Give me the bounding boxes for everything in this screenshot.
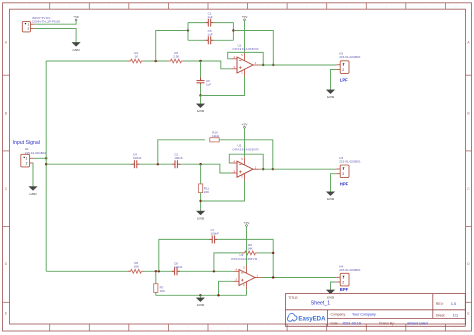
wire node B1 to C6 — [200, 61, 202, 80]
wire U2 pin2 to ground node — [201, 181, 245, 201]
wire +5V to U3 pin5 — [246, 227, 248, 266]
wire R11 to ground — [200, 193, 202, 211]
svg-text:ahmed saied: ahmed saied — [407, 321, 428, 325]
junction input rail / HPF branch — [45, 163, 47, 165]
svg-text:+5V: +5V — [241, 123, 248, 127]
ground stage2 — [196, 211, 204, 215]
svg-text:OPA336AIDBVR: OPA336AIDBVR — [231, 257, 258, 261]
capacitor C8 — [172, 267, 180, 275]
+5V power P1 — [75, 19, 77, 21]
wire C1 right — [214, 22, 234, 24]
wire R7 to ground rail — [155, 292, 157, 295]
svg-text:Company:: Company: — [331, 312, 347, 316]
wire H3 pin2 to GND — [331, 174, 337, 192]
svg-text:22K: 22K — [204, 190, 209, 194]
svg-text:2: 2 — [342, 280, 344, 284]
svg-text:215-91-02GB01: 215-91-02GB01 — [339, 268, 361, 272]
junction node B1 — [199, 60, 201, 62]
wire node B2 to R11 — [200, 164, 202, 184]
wire R2 to U1 pin3 — [184, 61, 232, 69]
svg-text:GND: GND — [197, 303, 205, 307]
svg-text:CONN-TH_2P-P5.08: CONN-TH_2P-P5.08 — [32, 19, 60, 23]
ground stage1 — [196, 104, 204, 108]
wire to ground stage3 — [199, 295, 201, 298]
svg-text:12kΩ: 12kΩ — [212, 134, 220, 138]
wire C2 to U2 pin3 — [180, 164, 231, 173]
wire U1 pin2 return — [201, 77, 245, 96]
wire +5V to U1 pin5 — [244, 21, 246, 53]
svg-text:Date:: Date: — [331, 321, 339, 325]
junction U1 output / loop — [262, 64, 264, 66]
junction R9 / C7 drop — [272, 252, 274, 254]
wire feedback right vertical — [232, 23, 234, 41]
wire stage3 ground rail — [156, 294, 247, 296]
junction input rail / H1 pin1 — [45, 157, 47, 159]
svg-text:1.0: 1.0 — [451, 301, 457, 306]
svg-text:GND: GND — [327, 295, 335, 299]
wire U1 pin4 feedback loop — [228, 52, 264, 65]
wire to C1 left — [188, 22, 205, 24]
wire rail to R1 — [46, 60, 130, 62]
svg-text:14K: 14K — [247, 246, 252, 250]
resistor R11 — [199, 184, 203, 193]
svg-text:1uF: 1uF — [207, 33, 212, 37]
wire C5 right — [214, 39, 234, 41]
wire R1 to R2 — [144, 60, 168, 62]
+5V power U1 — [244, 19, 246, 21]
junction node A3 tap — [158, 270, 160, 272]
junction U2 output / loop — [262, 168, 264, 170]
capacitor C2 — [172, 160, 180, 168]
wire P1 pin2 to GND — [34, 29, 76, 43]
junction feedback left — [187, 29, 189, 31]
wire node A3 to C7 — [159, 239, 209, 271]
+5V power U2 — [244, 126, 246, 128]
svg-text:2: 2 — [342, 172, 344, 176]
wire rail to R6 — [46, 270, 130, 272]
wire H1 pin1 to input rail — [33, 157, 46, 159]
junction U2 output / R10 — [272, 168, 274, 170]
junction ground rail / GND — [199, 294, 201, 296]
svg-text:1uF: 1uF — [207, 15, 212, 19]
svg-text:100nF: 100nF — [174, 265, 183, 269]
svg-text:+5V: +5V — [241, 15, 248, 19]
svg-text:TITLE:: TITLE: — [288, 296, 298, 300]
frame row ticks left — [3, 75, 10, 302]
junction R11 / U2 pin2 — [199, 200, 201, 202]
resistor R9 — [242, 251, 258, 255]
wire input rail vertical — [45, 61, 47, 271]
svg-text:GND: GND — [73, 48, 81, 52]
junction ground rail / pin3 — [217, 294, 219, 296]
op-amp U1 — [232, 53, 260, 77]
svg-text:+5V: +5V — [243, 221, 250, 225]
wire C8 to U3 pin4 — [180, 270, 234, 272]
svg-text:Input Signal: Input Signal — [13, 140, 40, 146]
svg-text:GND: GND — [327, 95, 335, 99]
op-amp U3 — [234, 266, 262, 290]
resistor R10 — [210, 138, 219, 142]
frame column ticks top — [50, 3, 446, 9]
svg-text:BPF: BPF — [340, 287, 349, 292]
wire P1 pin1 to +5V — [34, 21, 76, 24]
wire rail to C4 — [46, 163, 131, 165]
svg-text:OPA336AIDBVR: OPA336AIDBVR — [232, 47, 259, 51]
svg-text:GND: GND — [197, 216, 205, 220]
svg-text:1uF: 1uF — [206, 82, 211, 86]
svg-text:GND: GND — [327, 197, 335, 201]
svg-text:REV:: REV: — [436, 302, 444, 306]
capacitor C5 — [205, 36, 213, 44]
ground H2 — [326, 90, 334, 94]
wire U3 pin2 to ground rail — [246, 289, 248, 295]
+5V power U3 — [246, 225, 248, 227]
svg-text:215-91-02GB01: 215-91-02GB01 — [339, 55, 361, 59]
connector P1 CONN-TH_2P-P5.08 — [22, 22, 34, 32]
wire R9 to output drop — [258, 252, 273, 254]
wire to ground stage1 — [200, 96, 202, 104]
svg-text:100nF: 100nF — [174, 156, 183, 160]
wire C6 to gnd node — [200, 84, 202, 96]
frame column ticks bottom — [50, 324, 446, 331]
svg-text:OPA336AIDBVR: OPA336AIDBVR — [232, 147, 259, 151]
wire C7 to output — [218, 239, 274, 277]
svg-text:1K: 1K — [134, 55, 138, 59]
svg-text:Sheet_1: Sheet_1 — [311, 301, 330, 307]
wire R6 to C8 — [144, 270, 172, 272]
frame row ticks right — [466, 75, 472, 302]
wire +5V to U2 pin5 — [244, 128, 246, 157]
svg-text:+5V: +5V — [73, 15, 80, 19]
svg-text:215-91-02GB01: 215-91-02GB01 — [339, 159, 361, 163]
wire node A1 to feedback — [156, 31, 188, 62]
svg-text:2021-03-19: 2021-03-19 — [343, 321, 361, 325]
junction node A3 — [155, 270, 157, 272]
capacitor C6 — [197, 78, 205, 86]
svg-text:100nF: 100nF — [211, 232, 220, 236]
svg-text:2: 2 — [342, 68, 344, 72]
wire feedback to output — [233, 31, 273, 66]
wire U3 output to H4 — [261, 277, 336, 279]
ground P1 — [72, 42, 80, 46]
svg-text:Your Company: Your Company — [352, 312, 376, 316]
op-amp U2 — [232, 157, 260, 181]
svg-text:Sheet:: Sheet: — [436, 314, 446, 318]
resistor R1 — [128, 59, 144, 63]
wire U3 pin3 to ground rail — [219, 281, 234, 295]
resistor R6 — [128, 269, 144, 273]
connector H1 — [21, 154, 34, 167]
wire to C5 left — [188, 39, 205, 41]
wire U2 pin4 feedback loop — [229, 154, 263, 169]
wire H4 pin2 to GND — [331, 282, 337, 290]
connector H2 — [336, 61, 349, 74]
svg-text:Drawn By:: Drawn By: — [379, 321, 395, 325]
wire H2 pin2 to GND — [331, 70, 337, 90]
svg-text:HPF: HPF — [340, 182, 349, 187]
connector H3 — [336, 165, 349, 178]
svg-text:LPF: LPF — [340, 78, 348, 83]
ground H3 — [326, 192, 334, 196]
wire node B3 to R9 — [214, 253, 245, 271]
wire R10 to output — [219, 140, 273, 169]
resistor R2 — [168, 59, 184, 63]
ground H4 — [326, 290, 334, 294]
junction U3 output / feedback — [272, 276, 274, 278]
capacitor C7 — [209, 235, 217, 243]
svg-text:100nF: 100nF — [133, 156, 142, 160]
title block border — [286, 294, 466, 327]
capacitor C1 — [205, 19, 213, 27]
svg-text:1/1: 1/1 — [453, 314, 458, 318]
ground H1 — [29, 187, 37, 191]
svg-text:2: 2 — [26, 161, 28, 165]
svg-text:2.5K: 2.5K — [173, 55, 179, 59]
svg-text:1: 1 — [26, 157, 28, 161]
junction node B3 — [213, 270, 215, 272]
junction U1 output / C-network — [272, 64, 274, 66]
svg-text:GND: GND — [29, 192, 37, 196]
wire C4 to C2 — [140, 163, 172, 165]
svg-text:10K: 10K — [160, 289, 165, 293]
svg-text:GND: GND — [197, 109, 205, 113]
connector H4 — [336, 273, 349, 286]
resistor R7 — [154, 284, 158, 293]
wire feedback left vertical — [187, 23, 189, 41]
junction node A1 — [155, 60, 157, 62]
svg-text:EasyEDA: EasyEDA — [298, 316, 326, 323]
junction C6 / U1 pin2 / GND — [199, 94, 201, 96]
svg-text:10K: 10K — [134, 265, 139, 269]
capacitor C4 — [131, 160, 139, 168]
junction node B2 — [199, 163, 201, 165]
junction node A2 — [157, 163, 159, 165]
wire H1 pin2 to GND — [32, 163, 34, 187]
junction feedback right — [232, 29, 234, 31]
wire node A3 to R7 — [155, 271, 157, 284]
EasyEDA logo — [287, 313, 326, 322]
wire node A2 to R10 — [158, 140, 205, 164]
ground stage3 — [196, 298, 204, 302]
wire U1 output to H2 — [259, 64, 336, 66]
wire U2 output to H3 — [259, 168, 336, 170]
